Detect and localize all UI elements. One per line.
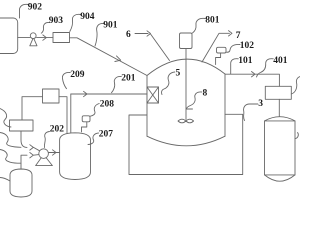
leader 3 — [244, 104, 258, 121]
leader 201 — [112, 76, 122, 92]
wire 6 to vessel dome — [151, 34, 170, 60]
svg-text:801: 801 — [205, 16, 220, 26]
vessel dished bottom — [147, 136, 225, 146]
svg-text:208: 208 — [100, 99, 115, 109]
leader 801 — [193, 18, 206, 33]
svg-text:8: 8 — [203, 88, 208, 98]
leader 401 — [257, 59, 274, 77]
pipe 201 horizontal — [71, 93, 147, 95]
vessel right wall — [224, 74, 226, 136]
svg-text:207: 207 — [99, 129, 114, 139]
impeller 8 — [178, 119, 194, 123]
wire sensor102 to dome — [216, 53, 221, 65]
device 208 — [82, 116, 90, 122]
box 209 — [43, 89, 60, 103]
wire box401 to tank4 — [278, 99, 280, 116]
leader 901 — [95, 23, 104, 46]
leader 208 — [90, 104, 99, 117]
wire pump202 to tank207 with arrow — [48, 152, 59, 154]
left feed box — [10, 120, 34, 131]
leader 207 — [88, 133, 99, 145]
valve on vessel left wall — [147, 87, 159, 103]
svg-text:202: 202 — [50, 124, 65, 134]
svg-text:401: 401 — [273, 56, 288, 66]
stirrer shaft 5 — [185, 49, 187, 120]
wire box209 right down to tank207 — [59, 97, 67, 134]
svg-text:102: 102 — [240, 41, 255, 51]
svg-text:7: 7 — [236, 31, 241, 41]
arrow 6 — [135, 33, 148, 35]
pipe 201 drop to tank207 — [70, 94, 72, 133]
svg-text:101: 101 — [238, 56, 253, 66]
leader 101 — [231, 59, 239, 74]
svg-text:901: 901 — [103, 20, 118, 30]
wire small tank to pump202 — [21, 155, 27, 169]
wavy feed line to small tank — [0, 178, 10, 182]
pipe 901 diagonal to vessel — [70, 38, 148, 76]
wavy feed line to pump202 upper inlet — [0, 133, 21, 148]
pump 903 — [30, 38, 37, 46]
leader 202 — [44, 132, 49, 148]
hook on tank4 right edge — [295, 133, 298, 139]
vessel left wall — [146, 76, 148, 137]
tank 4 — [265, 117, 296, 175]
leader 902 — [19, 4, 28, 18]
tank 207 — [60, 133, 91, 180]
leader 8 — [186, 92, 202, 109]
svg-text:209: 209 — [70, 70, 85, 80]
sensor 102 box — [217, 47, 227, 53]
leader 5 — [162, 72, 175, 95]
box 904 — [53, 33, 70, 43]
tank 902 — [0, 18, 18, 54]
leader 903 — [41, 22, 49, 33]
svg-text:5: 5 — [176, 68, 181, 78]
svg-text:3: 3 — [258, 99, 263, 109]
leader 209 — [62, 72, 70, 88]
motor 801 box — [180, 33, 193, 49]
box 401 — [265, 86, 291, 99]
wire tank902 to pump903 — [18, 37, 30, 39]
arrow 7 from dome — [202, 33, 230, 62]
leader 904 — [70, 14, 81, 31]
wavy feed line to left box — [0, 109, 11, 128]
svg-text:902: 902 — [28, 3, 43, 13]
vessel dome — [147, 59, 225, 75]
jacket 3 — [129, 114, 243, 174]
svg-text:904: 904 — [80, 12, 95, 22]
svg-text:201: 201 — [121, 73, 136, 83]
wavy feed line to pump202 lower inlet — [0, 150, 21, 164]
arrowhead on pipe 901 — [115, 56, 121, 62]
small tank bottom-left — [10, 169, 32, 197]
svg-text:6: 6 — [126, 30, 131, 40]
wire pump903 to unit904 with arrow — [37, 37, 54, 39]
curve from box401 right to edge — [291, 77, 300, 95]
pump 202 — [36, 155, 53, 166]
wire box209 left — [22, 97, 43, 120]
pipe 101 — [225, 74, 279, 86]
wire feedbox to pump202 — [21, 131, 27, 147]
wire device208 to tank207 — [82, 122, 87, 132]
leader 102 — [226, 44, 240, 52]
svg-text:903: 903 — [49, 16, 64, 26]
